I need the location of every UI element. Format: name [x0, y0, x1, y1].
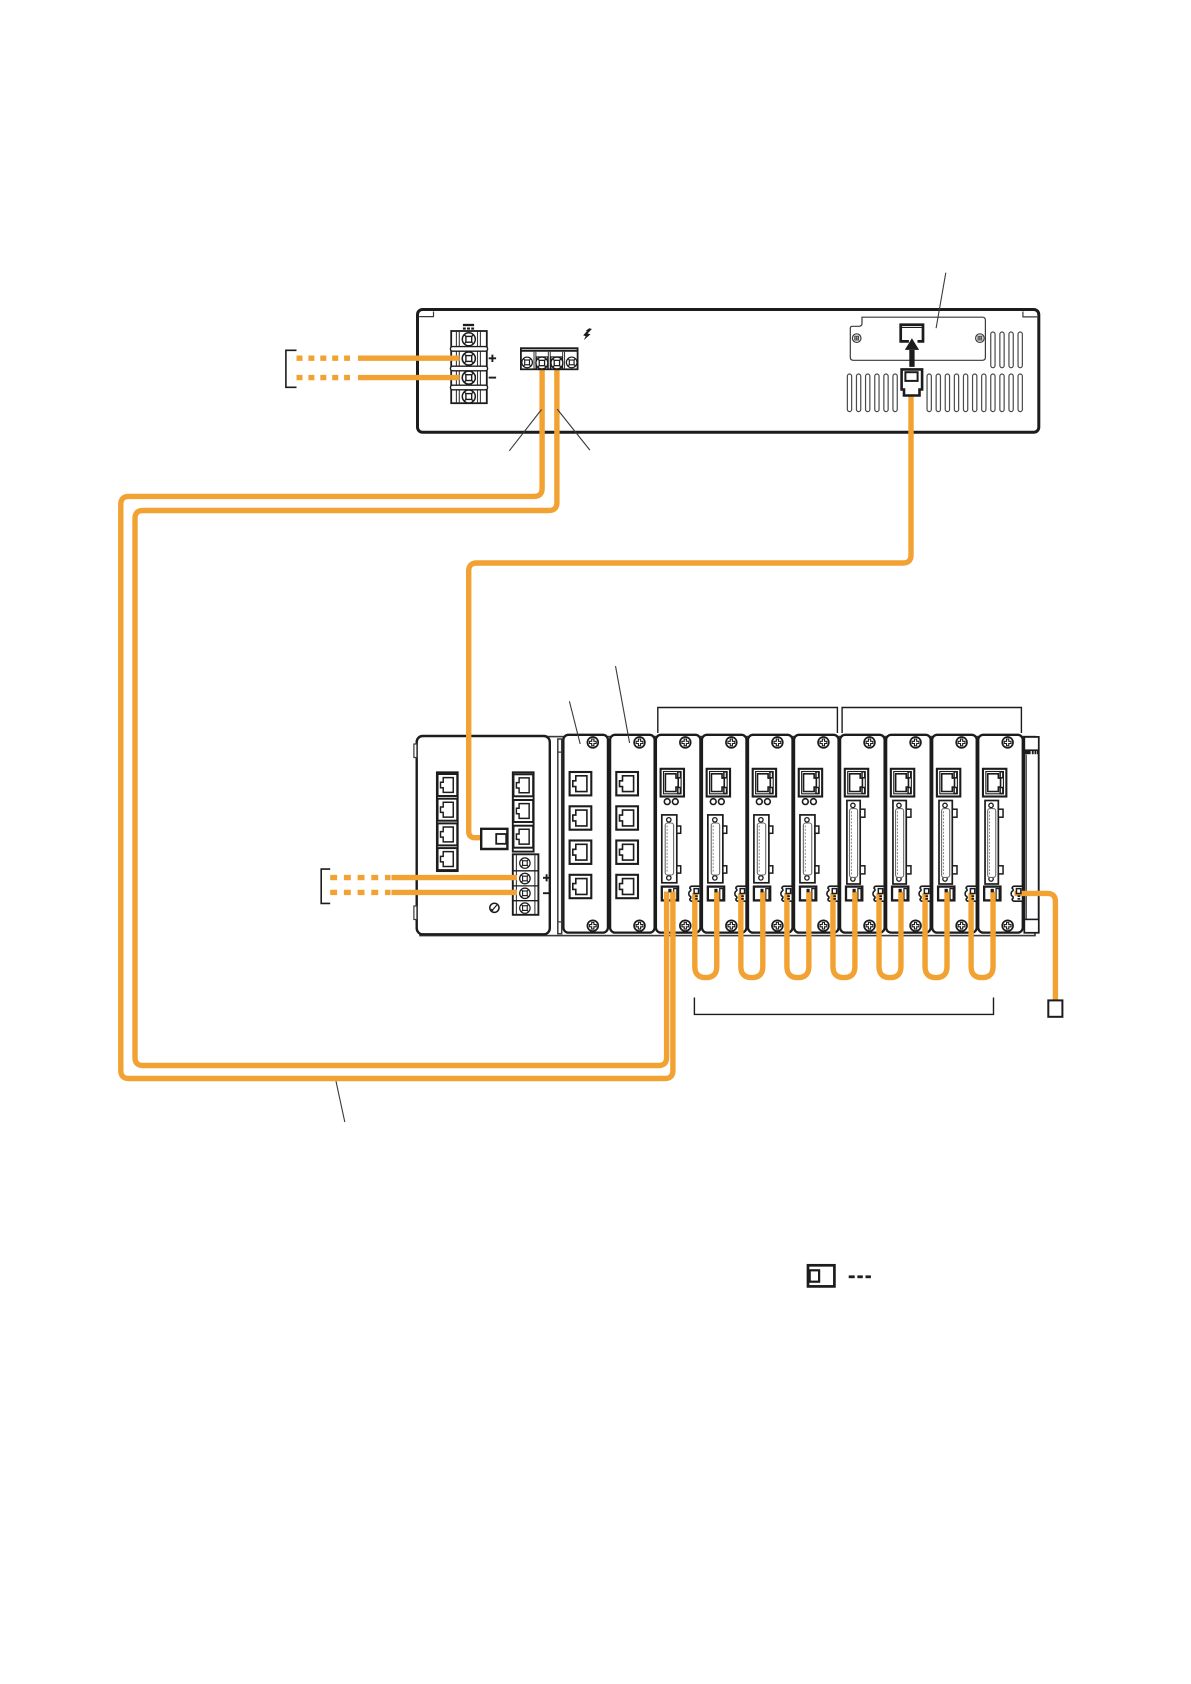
redraw controller terminal screws	[520, 873, 530, 898]
I/O module 7	[932, 735, 977, 933]
bracket module group 1-4	[658, 708, 838, 734]
leader line power cable bottom	[336, 1081, 345, 1122]
dashed + wire bottom	[330, 875, 390, 880]
end cover	[1024, 737, 1038, 933]
lightning hazard symbol	[583, 328, 592, 340]
network cable plug at controller	[481, 829, 507, 849]
NETWORK port opening	[901, 325, 923, 342]
network cable plug at PSU	[902, 369, 923, 395]
legend: connector symbol	[808, 1265, 834, 1286]
insert arrow	[905, 338, 919, 367]
vent slots right-top group	[991, 332, 1023, 368]
DC symbol	[463, 325, 474, 329]
leader line switch module 1	[569, 701, 580, 744]
redraw PSU DC terminal screws	[462, 352, 475, 384]
daisy-chain cable module 2 to 3	[741, 892, 763, 978]
terminator plug	[1048, 1000, 1062, 1016]
I/O module 5	[840, 735, 885, 933]
I/O module 6	[886, 735, 931, 933]
I/O module 1	[656, 735, 701, 933]
bracket daisy-chain cables	[694, 998, 993, 1015]
external power source bracket (top)	[286, 350, 297, 387]
redraw PSU mid terminal block over wires	[521, 348, 578, 369]
daisy-chain cable module 3 to 4	[787, 892, 809, 978]
+ label	[489, 355, 496, 362]
expansion slot plate	[850, 317, 985, 360]
DC input terminal block (4 screws, vertical)	[450, 331, 487, 403]
dashed - wire bottom	[330, 890, 390, 895]
- label controller	[543, 892, 550, 894]
leader line PSU wire right	[557, 409, 590, 450]
controller RJ45 column left (4 ports)	[437, 772, 458, 871]
I/O module 3	[748, 735, 793, 933]
controller unit body	[414, 736, 550, 934]
I/O module 4	[794, 735, 839, 933]
leader line switch module 2	[616, 666, 630, 743]
plate screw right	[976, 334, 985, 343]
network switch module 2	[610, 735, 655, 933]
bracket module group 5-8	[842, 708, 1021, 734]
leader line PSU wire left	[509, 410, 541, 451]
controller RJ45 column right (3 ports)	[513, 772, 534, 851]
plate screw left	[852, 334, 861, 343]
network cable PSU to controller	[469, 395, 911, 838]
daisy-chain cable module 1 to 2	[695, 892, 717, 978]
daisy-chain cable module 6 to 7	[925, 892, 947, 978]
vent slots left group	[847, 374, 897, 412]
dashed - wire top	[297, 375, 351, 380]
external power source bracket (bottom)	[321, 869, 330, 903]
mounting strip between controller and modules	[558, 739, 562, 934]
daisy-chain cable module 7 to 8	[971, 892, 993, 978]
network switch module 1	[563, 735, 608, 933]
rack base plate	[420, 737, 1035, 936]
redraw module port pins	[668, 889, 1020, 900]
termination cable module 8	[1015, 893, 1056, 1001]
ground screw	[490, 903, 499, 912]
power supply unit (rear panel)	[418, 310, 1039, 433]
+ label controller	[543, 874, 550, 881]
daisy-chain cable module 5 to 6	[879, 892, 901, 978]
vent slots right-bottom group	[927, 374, 1022, 412]
daisy-chain cable module 4 to 5	[833, 892, 855, 978]
I/O module 2	[702, 735, 747, 933]
dashed + wire top	[297, 356, 351, 361]
- label	[489, 377, 496, 379]
power wire + (PSU terminal to module 1 IN, big loop)	[121, 366, 673, 1079]
I/O module 8	[978, 735, 1023, 933]
controller power terminal block	[513, 854, 539, 915]
legend dashes	[849, 1275, 871, 1278]
leader line PSU slot	[936, 273, 946, 329]
power wire - (PSU terminal to module 1 IN, big loop)	[135, 366, 667, 1066]
